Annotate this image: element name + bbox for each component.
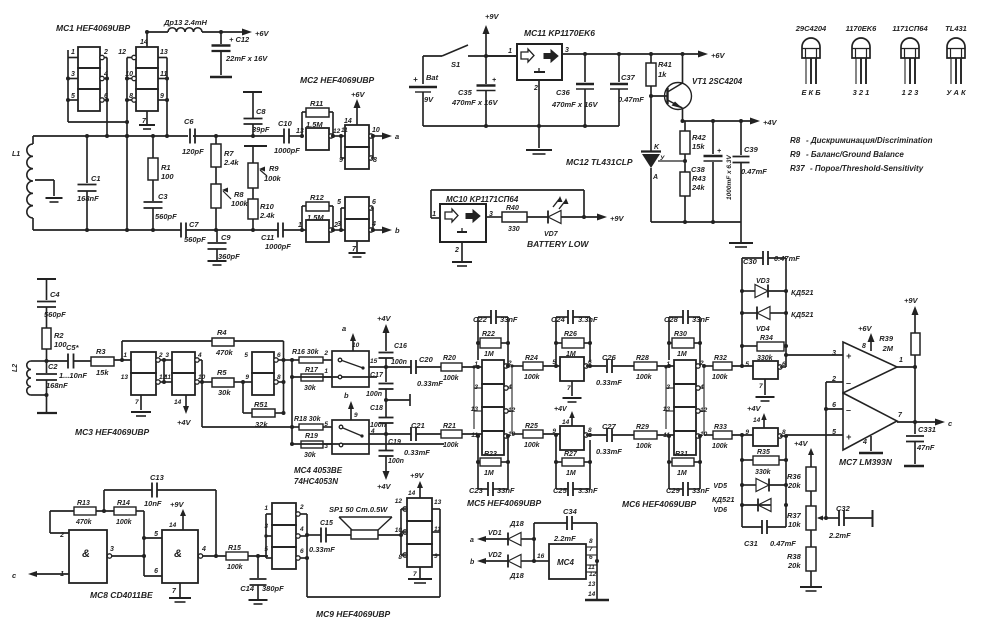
capacitor C3 [144, 192, 178, 230]
wire output7 [897, 367, 917, 424]
resistor R33 [704, 411, 753, 450]
comparator MC7 lower [832, 393, 897, 450]
ground pin2 MC10 [452, 242, 472, 266]
svg-text:R37: R37 [787, 511, 802, 520]
capacitor C27 [596, 422, 634, 456]
resistor R20 [441, 355, 482, 382]
svg-text:MC6 HEF4069UBP: MC6 HEF4069UBP [622, 499, 696, 509]
svg-text:R5: R5 [217, 368, 227, 377]
diode VD6 [713, 499, 771, 515]
svg-text:+4V: +4V [177, 418, 192, 427]
capacitor C17 [366, 365, 393, 417]
inverter MC9 1-2 [264, 503, 304, 525]
svg-text:33nF: 33nF [692, 315, 710, 324]
svg-text:100k: 100k [443, 375, 460, 382]
svg-text:R10: R10 [260, 202, 275, 211]
wire loop rails lower [740, 434, 788, 527]
svg-text:C1: C1 [91, 174, 101, 183]
loudspeaker SP1 [326, 505, 401, 539]
svg-text:У А К: У А К [946, 88, 967, 97]
IC MC2 label [300, 75, 374, 85]
inverter MC2 11-10 [341, 125, 380, 147]
wire top bus right [193, 134, 255, 138]
supply +4V divider [794, 439, 814, 467]
svg-text:C16: C16 [394, 343, 407, 350]
svg-text:22mF x 16V: 22mF x 16V [225, 54, 268, 63]
svg-text:4: 4 [299, 526, 304, 533]
resistor R2 [42, 328, 67, 361]
inverter MC3 9-8 [245, 373, 281, 395]
svg-text:9: 9 [354, 412, 358, 419]
wire [486, 55, 517, 57]
svg-text:13: 13 [663, 406, 671, 413]
svg-text:C25: C25 [553, 486, 568, 495]
svg-text:R39: R39 [879, 334, 894, 343]
junction dots MC6 loops [667, 341, 706, 464]
svg-text:VD1: VD1 [488, 530, 502, 537]
supply +4V rail top [377, 314, 392, 351]
capacitor C37 [610, 54, 644, 126]
svg-text:R1: R1 [161, 163, 171, 172]
svg-text:R17: R17 [305, 367, 319, 374]
inverter MC1C [78, 89, 104, 111]
transistor package 1170EK6 [846, 24, 878, 97]
svg-text:3: 3 [264, 523, 268, 530]
capacitor C19 [379, 434, 404, 472]
IC MC11 label [524, 28, 595, 38]
ground C14 [249, 600, 268, 604]
svg-text:20k: 20k [787, 561, 801, 570]
wire ties MC5 [472, 364, 513, 429]
wire output rail MC9a [300, 514, 309, 560]
svg-text:C31: C31 [744, 539, 758, 548]
wire row A [369, 366, 411, 368]
svg-text:+: + [492, 77, 496, 84]
svg-text:8: 8 [862, 343, 866, 350]
svg-text:2M: 2M [882, 344, 894, 353]
resistor R18 [292, 416, 332, 430]
inverter MC3 13-12 [121, 373, 167, 395]
svg-text:74HC4053N: 74HC4053N [294, 477, 338, 486]
svg-text:9: 9 [745, 429, 749, 436]
svg-text:MC3 HEF4069UBP: MC3 HEF4069UBP [75, 427, 149, 437]
svg-text:7: 7 [589, 546, 593, 553]
svg-text:R28: R28 [636, 355, 649, 362]
svg-text:29C4204: 29C4204 [795, 24, 827, 33]
svg-text:560pF: 560pF [155, 212, 177, 221]
svg-text:100k: 100k [524, 374, 541, 381]
svg-text:C19: C19 [388, 439, 401, 446]
svg-text:R20: R20 [443, 355, 456, 362]
svg-text:100n: 100n [370, 422, 386, 429]
svg-text:a: a [395, 132, 399, 141]
wire row B [369, 433, 411, 435]
ground pin4 MC7 [859, 436, 883, 453]
svg-text:S1: S1 [451, 60, 460, 69]
svg-text:33nF: 33nF [497, 486, 515, 495]
wire feedback loop [431, 190, 584, 218]
resistor R10 [248, 188, 275, 230]
svg-text:C20: C20 [419, 355, 434, 364]
svg-text:15k: 15k [692, 142, 705, 151]
ground MC4 [585, 599, 609, 602]
svg-text:380pF: 380pF [262, 584, 284, 593]
svg-text:5: 5 [324, 421, 328, 428]
NAND gate MC8A [59, 530, 114, 583]
legend text R9 [790, 150, 904, 159]
svg-text:R40: R40 [506, 205, 519, 212]
resistor R38 [787, 530, 816, 586]
resistor R40 [486, 205, 527, 233]
svg-text:Е К Б: Е К Б [801, 88, 821, 97]
svg-text:1M: 1M [677, 351, 687, 358]
capacitor C23 [469, 436, 515, 496]
capacitor C2 [36, 361, 68, 395]
svg-text:a: a [470, 537, 474, 544]
analog switch MC4a [323, 342, 377, 387]
svg-text:7: 7 [567, 385, 571, 392]
ground C9 [208, 261, 227, 265]
ground [729, 222, 753, 247]
svg-text:5: 5 [832, 429, 836, 436]
resistor R16 [292, 349, 332, 363]
svg-text:1000pF: 1000pF [274, 146, 300, 155]
svg-text:1 2 3: 1 2 3 [902, 88, 920, 97]
voltage detector MC10 [432, 204, 493, 254]
svg-text:C3: C3 [158, 192, 168, 201]
svg-text:VD3: VD3 [756, 278, 770, 285]
legend text R37 [790, 164, 924, 173]
supply +4V pin14 [747, 404, 767, 428]
svg-text:+: + [717, 148, 721, 155]
svg-text:2.4k: 2.4k [259, 211, 275, 220]
svg-text:470mF x 16V: 470mF x 16V [551, 100, 598, 109]
svg-text:КД521: КД521 [791, 310, 814, 319]
IC MC10 label [446, 195, 519, 204]
svg-text:9: 9 [245, 374, 249, 381]
svg-text:C331: C331 [918, 425, 936, 434]
output b arrow [382, 226, 400, 235]
svg-text:C15: C15 [320, 520, 333, 527]
svg-text:КД521: КД521 [791, 288, 814, 297]
svg-text:R2: R2 [54, 331, 64, 340]
wire ties MC6 [664, 364, 705, 429]
IC MC3 label [75, 427, 149, 437]
capacitor C11 [253, 223, 306, 252]
wire bottom rail [423, 124, 619, 128]
svg-text:100k: 100k [264, 174, 282, 183]
svg-text:A: A [652, 174, 658, 181]
svg-text:R19: R19 [305, 433, 318, 440]
capacitor C26 [596, 353, 634, 387]
svg-text:12: 12 [395, 498, 403, 505]
svg-text:14: 14 [408, 490, 416, 497]
svg-text:32k: 32k [255, 420, 268, 429]
svg-text:1M: 1M [484, 351, 494, 358]
inverter MC9 5-6 [264, 546, 304, 569]
inverter MC5 1-2 [474, 360, 512, 384]
ground C331 [904, 465, 924, 468]
svg-text:L2: L2 [12, 364, 19, 372]
svg-text:15k: 15k [96, 368, 109, 377]
wire [104, 58, 109, 137]
svg-text:2: 2 [103, 49, 108, 56]
capacitor C331 [906, 422, 936, 464]
svg-text:14: 14 [562, 419, 570, 426]
ground R38 [800, 587, 822, 591]
svg-text:6: 6 [277, 352, 281, 359]
svg-text:5: 5 [264, 546, 268, 553]
svg-text:6: 6 [832, 402, 836, 409]
svg-text:VT1 2SC4204: VT1 2SC4204 [692, 77, 743, 86]
svg-text:100k: 100k [524, 442, 541, 449]
svg-text:C13: C13 [150, 473, 165, 482]
capacitor C24 [551, 310, 598, 366]
svg-text:R8: R8 [234, 190, 244, 199]
svg-text:&: & [82, 548, 90, 560]
supply +9V MC9 [408, 471, 425, 498]
svg-text:4: 4 [197, 352, 202, 359]
svg-text:+4V: +4V [763, 118, 778, 127]
svg-text:R21: R21 [443, 423, 456, 430]
wire [554, 433, 607, 437]
svg-text:330k: 330k [757, 355, 774, 362]
svg-text:C4: C4 [50, 290, 60, 299]
capacitor C39 [733, 121, 768, 222]
svg-text:&: & [174, 548, 182, 560]
svg-text:MC5 HEF4069UBP: MC5 HEF4069UBP [467, 498, 541, 508]
control a [342, 324, 356, 351]
svg-text:R32: R32 [714, 355, 727, 362]
resistor R1 [148, 136, 174, 201]
svg-text:R36: R36 [787, 472, 802, 481]
wire bottom bus [33, 208, 255, 232]
svg-text:b: b [395, 226, 400, 235]
svg-text:20k: 20k [787, 481, 801, 490]
svg-text:C6: C6 [184, 117, 194, 126]
svg-text:8: 8 [277, 374, 281, 381]
svg-text:1M: 1M [677, 470, 687, 477]
capacitor C9 [208, 230, 241, 261]
inverter MC2 3-4 [337, 219, 376, 241]
capacitor C6 [182, 117, 204, 156]
svg-text:6: 6 [154, 568, 158, 575]
inverter MC9 13-12 [395, 498, 442, 521]
svg-text:330k: 330k [755, 469, 772, 476]
IC MC1 label [56, 23, 130, 33]
svg-text:100n: 100n [366, 391, 382, 398]
svg-text:MC1 HEF4069UBP: MC1 HEF4069UBP [56, 23, 130, 33]
svg-text:168nF: 168nF [46, 381, 68, 390]
wire +6V rail [562, 52, 700, 56]
svg-text:C35: C35 [458, 88, 473, 97]
resistor R17 [292, 367, 377, 392]
svg-text:9V: 9V [424, 95, 434, 104]
svg-text:C11: C11 [261, 233, 274, 242]
pin labels MC1 col2 [118, 39, 168, 125]
capacitor C4 [37, 279, 66, 328]
inverter MC1A [78, 47, 104, 68]
svg-text:3: 3 [832, 350, 836, 357]
inverter MC5 5-6 [552, 357, 592, 381]
svg-text:C27: C27 [602, 422, 617, 431]
svg-text:9: 9 [434, 553, 438, 560]
wire pin14 MC1 [145, 30, 149, 47]
resistor R22 [478, 331, 508, 358]
ground pin7 MC2 [349, 241, 366, 257]
wire [333, 208, 345, 232]
svg-text:R38: R38 [787, 552, 802, 561]
svg-text:100k: 100k [227, 564, 244, 571]
svg-text:C23: C23 [469, 486, 484, 495]
resistor R5 [202, 368, 252, 397]
resistor R23 [478, 451, 508, 477]
transistor package 1171СП64 [892, 24, 928, 97]
shunt regulator MC12 TL431 [641, 96, 685, 222]
svg-text:- Дискриминация/Discrimination: - Дискриминация/Discrimination [806, 136, 933, 145]
IC MC7 label [839, 457, 893, 467]
resistor R42 [680, 121, 707, 161]
svg-text:2: 2 [158, 352, 163, 359]
svg-text:33nF: 33nF [500, 315, 518, 324]
svg-text:1: 1 [899, 357, 903, 364]
svg-text:13: 13 [434, 499, 442, 506]
inverter MC3 11-10 [164, 373, 205, 395]
svg-text:MC7 LM393N: MC7 LM393N [839, 457, 893, 467]
svg-text:100k: 100k [712, 374, 729, 381]
svg-text:R37: R37 [790, 164, 805, 173]
svg-text:C38: C38 [691, 165, 706, 174]
wire [333, 134, 345, 158]
inverter MC9 8-9 [398, 544, 438, 567]
svg-text:BATTERY LOW: BATTERY LOW [527, 239, 589, 249]
resistor R26 [556, 331, 590, 358]
wire [111, 511, 162, 576]
diode VD2 [470, 552, 536, 580]
supply +6V MC7 [858, 324, 875, 351]
text BATTERY LOW [527, 239, 589, 249]
svg-text:100k: 100k [712, 443, 729, 450]
svg-text:3: 3 [324, 443, 328, 450]
resistor R51 [243, 382, 284, 429]
svg-text:+ C12: + C12 [229, 35, 250, 44]
resistor R11 [302, 99, 333, 136]
inverter MC2 13-12 [296, 128, 341, 150]
svg-text:6: 6 [589, 554, 593, 561]
svg-text:11: 11 [341, 127, 348, 134]
svg-text:100n: 100n [391, 359, 407, 366]
inverter MC1F [132, 89, 158, 111]
svg-text:30k: 30k [304, 385, 317, 392]
svg-text:C18: C18 [370, 405, 383, 412]
svg-text:+: + [846, 351, 852, 361]
svg-text:+6V: +6V [351, 90, 366, 99]
wire +4V rail [681, 119, 753, 123]
svg-text:10nF: 10nF [144, 499, 162, 508]
voltage regulator MC11 [508, 44, 569, 92]
svg-text:+9V: +9V [410, 471, 425, 480]
svg-text:+9V: +9V [170, 500, 185, 509]
potentiometer R37 [787, 506, 828, 530]
svg-text:R8: R8 [790, 136, 801, 145]
inverter MC3 1-2 [123, 352, 163, 373]
svg-text:MC4 4053BE: MC4 4053BE [294, 466, 343, 475]
svg-text:0.47mF: 0.47mF [770, 539, 796, 548]
svg-text:3: 3 [71, 71, 75, 78]
svg-text:+6V: +6V [858, 324, 873, 333]
svg-text:3: 3 [337, 221, 341, 228]
svg-text:7: 7 [135, 399, 139, 406]
inverter MC2 1-2 [298, 220, 338, 242]
ground L2 C2 [31, 393, 57, 413]
inverter MC6 9-8 [745, 428, 786, 446]
svg-text:R31: R31 [675, 451, 688, 458]
capacitor C25 [553, 435, 598, 496]
capacitor C1 [77, 136, 101, 230]
capacitor C34 [534, 507, 597, 561]
wire loop rails upper [740, 258, 788, 367]
battery Bat 9V [409, 56, 439, 126]
resistor R7 [211, 136, 239, 167]
svg-text:R29: R29 [636, 424, 649, 431]
svg-text:7: 7 [413, 571, 417, 578]
supply +9V led [597, 214, 625, 224]
svg-text:0.47mF: 0.47mF [774, 254, 800, 263]
svg-text:VD2: VD2 [488, 552, 502, 559]
svg-text:39pF: 39pF [252, 125, 270, 134]
svg-text:–: – [846, 405, 851, 415]
capacitor C18 [370, 405, 394, 436]
wire output rail MC9b [432, 509, 440, 555]
svg-text:R33: R33 [714, 424, 727, 431]
svg-text:10k: 10k [788, 520, 801, 529]
svg-text:100: 100 [161, 172, 174, 181]
svg-text:1000mF x 6.3V: 1000mF x 6.3V [726, 155, 733, 200]
svg-text:VD7: VD7 [544, 231, 559, 238]
svg-text:13: 13 [471, 406, 479, 413]
svg-text:R18 30k: R18 30k [294, 416, 322, 423]
svg-text:6: 6 [300, 548, 304, 555]
ground pin7 MC1 [139, 111, 155, 129]
svg-text:C21: C21 [411, 421, 425, 430]
svg-text:+6V: +6V [711, 51, 726, 60]
inverter MC3 3-4 [165, 352, 202, 373]
svg-text:C28: C28 [664, 315, 679, 324]
svg-text:MC11 KP1170EK6: MC11 KP1170EK6 [524, 28, 595, 38]
svg-text:3: 3 [565, 47, 569, 54]
svg-text:R34: R34 [760, 335, 773, 342]
svg-text:R7: R7 [224, 149, 234, 158]
svg-text:2: 2 [299, 504, 304, 511]
IC MC9 label [316, 609, 390, 619]
svg-text:8: 8 [589, 538, 593, 545]
svg-text:1: 1 [264, 505, 268, 512]
svg-text:1000pF: 1000pF [265, 242, 291, 251]
svg-text:0.47mF: 0.47mF [741, 167, 767, 176]
supply +6V top [240, 29, 270, 39]
svg-text:2: 2 [533, 85, 538, 92]
svg-text:14: 14 [344, 118, 352, 125]
svg-text:R16 30k: R16 30k [292, 349, 320, 356]
transistor package 29C4204 [795, 24, 827, 97]
capacitor C14 [240, 556, 284, 599]
svg-text:R30: R30 [674, 331, 687, 338]
inverter MC5 11-10 [471, 431, 515, 455]
svg-text:+9V: +9V [485, 12, 500, 21]
svg-text:1M: 1M [566, 351, 576, 358]
capacitor C36 [551, 54, 598, 126]
svg-text:C8: C8 [256, 107, 266, 116]
